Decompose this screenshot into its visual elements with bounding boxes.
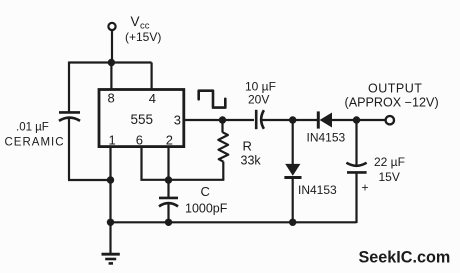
- junction pin 2 node: [165, 176, 172, 183]
- svg-text:1000pF: 1000pF: [185, 202, 228, 216]
- junction D1 anode node: [289, 116, 296, 123]
- diode D2 IN4153: [284, 164, 301, 178]
- diode D1 IN4153: [318, 111, 332, 128]
- ground: [102, 254, 120, 263]
- wire pin 6: [142, 147, 169, 180]
- wire D2 to ground rail: [292, 178, 294, 223]
- svg-text:8: 8: [108, 91, 115, 106]
- svg-text:33k: 33k: [241, 154, 262, 168]
- svg-text:15V: 15V: [379, 170, 400, 184]
- svg-text:(+15V): (+15V): [125, 30, 161, 44]
- svg-text:1: 1: [109, 133, 116, 148]
- svg-text:IN4153: IN4153: [298, 183, 337, 197]
- svg-text:22 µF: 22 µF: [374, 155, 405, 169]
- wire ground stem: [109, 222, 111, 253]
- svg-text:.01 µF: .01 µF: [16, 122, 49, 134]
- svg-text:C: C: [201, 184, 210, 199]
- junction D2 bottom: [289, 219, 296, 226]
- wire D1 node down to D2: [292, 120, 294, 164]
- wire pin 2: [167, 147, 169, 197]
- svg-text:OUTPUT: OUTPUT: [368, 82, 422, 96]
- junction C bottom: [165, 219, 172, 226]
- wire C1 bottom to pin 1: [68, 179, 111, 181]
- svg-text:20V: 20V: [248, 93, 269, 107]
- wire C bottom to ground rail: [167, 204, 169, 222]
- svg-text:CERAMIC: CERAMIC: [5, 137, 65, 149]
- capacitor C3 22uF 15V: [346, 163, 366, 173]
- junction ground rail left: [107, 219, 114, 226]
- svg-text:R: R: [243, 139, 252, 154]
- wire output node down to C3: [355, 120, 357, 165]
- node OUTPUT terminal: [386, 116, 394, 124]
- node Vcc terminal: [108, 23, 115, 30]
- wire rail to C1 top: [68, 62, 70, 112]
- capacitor C 1000pF: [159, 198, 178, 207]
- label Vcc: [131, 14, 150, 32]
- wire Vcc terminal to top rail: [111, 30, 113, 63]
- svg-text:IN4153: IN4153: [307, 131, 346, 145]
- wire output node to terminal: [357, 119, 386, 121]
- capacitor C1 .01uF ceramic: [59, 112, 80, 121]
- resistor R 33k: [218, 132, 228, 161]
- junction pin 1 node: [107, 176, 114, 183]
- wire pin 3 output: [184, 119, 223, 121]
- wire pin3 node to C2: [223, 119, 255, 121]
- svg-text:10 µF: 10 µF: [245, 80, 276, 94]
- svg-text:(APPROX −12V): (APPROX −12V): [345, 96, 439, 110]
- svg-text:SeekIC.com: SeekIC.com: [359, 248, 451, 266]
- capacitor C2 10uF 20V: [256, 110, 264, 129]
- wire pin 8: [110, 63, 112, 91]
- svg-text:3: 3: [174, 113, 181, 128]
- svg-text:V: V: [131, 14, 140, 29]
- svg-text:+: +: [362, 181, 369, 195]
- wire R bottom: [222, 162, 224, 180]
- junction Vcc rail: [108, 59, 115, 66]
- wire C1 bottom down: [68, 119, 70, 181]
- wire D1 node to D1: [293, 119, 317, 121]
- junction pin 3 node: [219, 116, 226, 123]
- wire pin 4: [151, 63, 153, 91]
- wire pin 1: [109, 147, 111, 222]
- wire R bottom to pin 2 node: [169, 179, 225, 181]
- square wave symbol: [199, 91, 226, 108]
- wire top rail: [69, 61, 152, 63]
- wire C2 to D1 node: [263, 119, 293, 121]
- wire C3 to ground rail: [355, 172, 357, 223]
- svg-text:555: 555: [131, 112, 154, 127]
- junction output node: [353, 116, 360, 123]
- svg-text:2: 2: [166, 133, 173, 148]
- wire bottom ground rail: [111, 221, 357, 223]
- wire D1 to output node: [332, 119, 357, 121]
- svg-text:6: 6: [136, 133, 143, 148]
- op-amp U1 555 timer body: [99, 90, 184, 147]
- wire pin3 node down to R: [221, 120, 223, 133]
- svg-text:4: 4: [149, 91, 156, 106]
